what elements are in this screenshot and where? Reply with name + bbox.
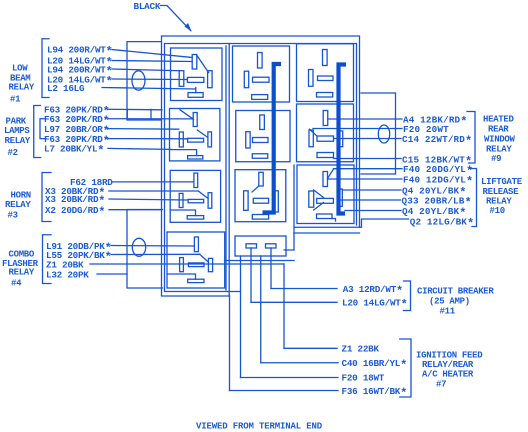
wire F36 vertical from shell xyxy=(229,296,231,391)
relay C3R2 diagonal contact xyxy=(310,129,318,136)
relay C2R2 bottom pin bar xyxy=(252,154,268,159)
wire F63 20PK/RD row1 xyxy=(108,108,162,111)
relay R1 diagonal contact xyxy=(197,55,209,72)
bus bar column 3 xyxy=(339,65,347,214)
wire F63 20PK/RD row4 xyxy=(108,138,188,140)
wire A3 junction horizontal xyxy=(225,260,295,262)
relay R4 pin 85 (left) xyxy=(180,258,184,272)
bracket group 2 inner F63 xyxy=(40,119,46,139)
wire F63 join vertical 1 xyxy=(150,109,152,118)
wire F20 vertical xyxy=(240,256,242,378)
relay C2R1 bottom pin bar xyxy=(252,95,268,100)
heated rear window extension box xyxy=(361,93,396,174)
relay C3R3 pin (center bar) xyxy=(317,198,334,203)
wire Z1 22BK to label xyxy=(284,347,337,349)
relay R1 pin 85 (left) xyxy=(179,71,184,87)
svg-text:RELAY: RELAY xyxy=(5,200,31,210)
bus bar column 2 xyxy=(263,64,347,214)
relay R1 low beam socket box xyxy=(171,48,223,101)
svg-text:X2 20DG/RD*: X2 20DG/RD* xyxy=(45,205,105,219)
relay R2 bottom step stub xyxy=(171,150,197,156)
relay R1 pin 87 (center bar) xyxy=(187,77,204,82)
relay C2R3 pin (right) xyxy=(273,191,278,212)
wire Q2 12LG/BK stub xyxy=(362,219,409,227)
svg-text:L20 14LG/WT*: L20 14LG/WT* xyxy=(342,298,408,312)
bottom connector box xyxy=(235,236,286,256)
relay C3R1 socket box xyxy=(297,44,354,102)
bracket group 4 xyxy=(43,235,52,284)
column 3 group box left edge xyxy=(293,165,295,233)
connector C100 oval xyxy=(132,71,145,90)
svg-text:#2: #2 xyxy=(8,148,18,158)
wire L55 20PK/BK xyxy=(111,253,200,255)
bottom connector pad 2 xyxy=(266,244,277,248)
wire L20 14LG/WT row4 xyxy=(112,78,187,81)
bottom connector pad 1 xyxy=(246,244,257,248)
wire X3 20BK/RD row1 xyxy=(109,190,198,192)
wire F63 20PK/RD row2 xyxy=(108,118,193,120)
relay R1 pin 30 (top) xyxy=(192,55,197,70)
main fuse box inner liner xyxy=(165,44,357,292)
relay R2 diagonal contact xyxy=(197,130,207,137)
wire L94 200R/WT row3 xyxy=(112,69,179,71)
svg-text:LAMPS: LAMPS xyxy=(4,126,30,136)
relay R2 pin 30 (top) xyxy=(193,113,197,127)
node label BLACK arrowhead xyxy=(185,23,192,32)
bracket group 3 xyxy=(42,173,51,222)
relay R2 pin 86 (right) xyxy=(208,132,212,147)
svg-text:#4: #4 xyxy=(11,279,22,289)
svg-text:IGNITION FEED: IGNITION FEED xyxy=(416,351,483,361)
relay R2 pin 87 (center bar) xyxy=(188,138,204,142)
column 2 group box left edge xyxy=(228,44,230,297)
wire L91 20DB/PK xyxy=(111,245,194,248)
relay C2R2 pin (center bar) xyxy=(253,138,269,143)
relay R3 horn socket box xyxy=(170,170,220,222)
svg-text:HEATED: HEATED xyxy=(483,115,515,125)
svg-text:REAR: REAR xyxy=(488,125,509,135)
wire C40 16BR/YL to label xyxy=(261,362,338,364)
wire X2 20DG/RD xyxy=(109,209,162,211)
relay R4 diagonal contact xyxy=(200,254,209,262)
svg-text:COMBO: COMBO xyxy=(9,250,35,260)
wire A3 pad stub xyxy=(270,248,272,289)
svg-text:Q2 12LG/BK*: Q2 12LG/BK* xyxy=(410,217,475,231)
relay R3 bottom feed and stub xyxy=(171,210,196,216)
svg-text:A3 12RD/WT*: A3 12RD/WT* xyxy=(343,284,403,298)
relay C2R3 socket box xyxy=(235,170,286,222)
connector C101 lower channel box xyxy=(127,210,163,289)
svg-text:#3: #3 xyxy=(8,211,18,221)
relay R2 pin 85 (left) xyxy=(179,132,183,147)
wire F40 12DG/YL xyxy=(328,178,403,180)
relay C3R2 heated rear window socket box xyxy=(297,104,354,162)
relay R4 combo flasher socket box xyxy=(167,232,225,288)
relay C2R3 bottom pin bar xyxy=(252,215,268,220)
connector C101 oval xyxy=(132,238,145,256)
bracket heated rear window relay xyxy=(467,112,475,164)
svg-text:BLACK: BLACK xyxy=(134,1,161,12)
svg-text:#7: #7 xyxy=(436,380,446,390)
wire Z1 vertical drop xyxy=(283,264,285,348)
svg-text:F20 18WT: F20 18WT xyxy=(342,373,385,384)
relay R3 pin 30 (top) xyxy=(194,173,198,187)
wire F20 20WT xyxy=(313,128,402,130)
svg-text:#1: #1 xyxy=(10,95,21,105)
svg-text:L7 20BK/YL*: L7 20BK/YL* xyxy=(44,144,104,158)
wire F62 18RD xyxy=(113,181,193,183)
relay C2R3 pin (left) xyxy=(244,191,249,211)
wire F40 20DG/YL xyxy=(334,168,403,170)
wire Z1 20BK horizontal xyxy=(90,263,284,265)
wire L32 20PK xyxy=(97,273,127,275)
wire L20 14LG/WT to label xyxy=(251,301,337,303)
wire X3 20BK/RD row2 xyxy=(109,199,188,200)
svg-text:(25 AMP): (25 AMP) xyxy=(429,296,470,306)
relay R4 bottom pin bar xyxy=(188,279,204,282)
wire L20 14LG/WT vertical from pad1 xyxy=(250,248,252,302)
svg-text:Z1 22BK: Z1 22BK xyxy=(342,344,380,355)
relay C2R3 pin (center bar) xyxy=(253,198,268,203)
relay C3R1 bottom pin bar xyxy=(317,93,333,98)
wire F20 18WT to label xyxy=(241,377,339,379)
relay C3R3 pin (top) xyxy=(323,172,328,187)
svg-text:F36 16WT/BK*: F36 16WT/BK* xyxy=(342,386,408,400)
relay R3 diagonal contact xyxy=(198,191,208,199)
relay C2R2 socket box xyxy=(236,111,290,162)
relay C2R1 pin (top) xyxy=(258,53,263,69)
relay C3R3 pin (left) xyxy=(309,191,314,207)
relay C3R2 bottom pin bar xyxy=(317,153,334,158)
column 3 liner drop corner xyxy=(284,233,294,250)
relay R4 bottom feed and stub xyxy=(167,274,195,279)
relay C3R3 liftgate release socket box xyxy=(297,165,354,224)
relay C3R1 pin (center bar) xyxy=(318,76,334,81)
bracket group 2 outer xyxy=(34,106,41,158)
relay R2 park lamps socket box xyxy=(170,109,220,161)
relay C3R2 pin (top) xyxy=(323,111,328,126)
extension box oval xyxy=(378,125,389,143)
wire L20 14LG/WT row2 xyxy=(112,61,192,62)
relay C2R1 pin (center bar) xyxy=(253,77,270,82)
relay C3R3 bottom pin bar xyxy=(317,214,333,219)
svg-text:#11: #11 xyxy=(440,307,456,317)
relay R3 pin 87 (center bar) xyxy=(188,199,204,202)
wire F36 16WT/BK to label xyxy=(230,390,339,392)
wire Q4 20YL/BK row1 xyxy=(342,189,401,191)
relay R4 pin 87 (center bar) xyxy=(188,263,204,267)
wire L97 20BR/OR xyxy=(108,128,179,131)
svg-text:RELAY: RELAY xyxy=(9,268,35,278)
bracket ignition feed relay xyxy=(400,339,411,397)
bracket group 1 xyxy=(42,39,49,98)
relay C2R2 pin (top) xyxy=(260,115,265,130)
relay C2R3 pin (top) xyxy=(259,172,263,186)
svg-text:#9: #9 xyxy=(491,154,501,164)
relay C3R3 K diagonal upper xyxy=(314,190,324,198)
column 3 lower liner line 2 xyxy=(294,232,360,234)
wire F63 join vertical 2 xyxy=(126,109,128,119)
svg-text:C40 16BR/YL*: C40 16BR/YL* xyxy=(342,358,408,372)
svg-text:C14 22WT/RD*: C14 22WT/RD* xyxy=(402,134,472,148)
svg-text:L2 16LG: L2 16LG xyxy=(47,83,85,94)
wire A3 12RD/WT to label xyxy=(271,288,337,290)
svg-text:A/C HEATER: A/C HEATER xyxy=(422,370,474,380)
connector C100 upper channel box xyxy=(127,42,162,120)
relay R2 bottom pin bar xyxy=(188,156,203,159)
relay C2R1 pin (left) xyxy=(244,71,248,88)
relay C3R3 pin (right) xyxy=(338,189,342,206)
relay C3R3 top diagonal contact xyxy=(328,169,334,179)
svg-text:RELAY: RELAY xyxy=(5,136,31,146)
column 1 group box right edge xyxy=(225,46,227,290)
relay R1 pin 86 (right) xyxy=(208,71,213,88)
wire C14 22WT/RD xyxy=(334,138,402,140)
relay R1 bottom pin bar xyxy=(188,93,203,98)
svg-text:LIFTGATE: LIFTGATE xyxy=(481,177,523,187)
relay C3R2 pin (right) xyxy=(338,131,343,147)
relay C3R1 pin (top) xyxy=(323,50,328,66)
relay R3 pin 86 (right) xyxy=(208,193,212,209)
svg-text:RELEASE: RELEASE xyxy=(483,187,520,197)
wire C40 vertical xyxy=(260,256,262,363)
svg-text:VIEWED FROM TERMINAL END: VIEWED FROM TERMINAL END xyxy=(196,422,323,432)
relay R3 bottom pin bar xyxy=(187,216,204,220)
wire L94 200R/WT row1 xyxy=(112,50,192,58)
svg-text:RELAY: RELAY xyxy=(486,197,512,207)
svg-text:RELAY/REAR: RELAY/REAR xyxy=(422,360,474,370)
relay R4 pin 30 (top) xyxy=(194,237,198,252)
relay C3R1 pin (left) xyxy=(309,70,314,87)
relay R2 diagonal from top edge xyxy=(180,110,194,120)
svg-text:LOW: LOW xyxy=(12,64,28,74)
svg-text:PARK: PARK xyxy=(6,117,27,127)
relay C2R3 diagonal contact xyxy=(252,186,259,192)
wire L7 20BK/YL xyxy=(108,148,171,149)
node label BLACK leader line xyxy=(161,6,191,31)
svg-text:CIRCUIT BREAKER: CIRCUIT BREAKER xyxy=(417,287,494,297)
svg-text:RELAY: RELAY xyxy=(9,83,35,93)
svg-text:RELAY: RELAY xyxy=(486,145,512,155)
column 3 lower liner line 1 xyxy=(294,226,362,228)
main fuse box outer shell xyxy=(162,36,360,296)
relay R3 pin 85 (left) xyxy=(179,193,183,207)
svg-text:HORN: HORN xyxy=(11,191,31,201)
wire Q33 20BR/LB xyxy=(338,199,401,201)
relay C3R2 pin (center bar) xyxy=(317,136,334,141)
relay C3R2 pin (left) xyxy=(309,130,313,147)
wire C15 12BK/WT xyxy=(334,158,402,160)
bracket liftgate release relay xyxy=(470,169,477,227)
wire L2 16LG row5 xyxy=(102,88,196,90)
bracket circuit breaker xyxy=(404,281,411,311)
svg-text:#10: #10 xyxy=(490,206,505,216)
relay R1 pin 87a stub xyxy=(195,88,197,93)
wire Q4 20YL/BK row2 xyxy=(345,210,401,212)
relay C2R1 socket box xyxy=(233,46,290,102)
relay C3R3 bottom step xyxy=(332,219,336,222)
relay R4 pin 86 (right) xyxy=(208,258,212,271)
svg-text:L32 20PK: L32 20PK xyxy=(46,270,89,281)
wire A4 12BK/RD xyxy=(328,118,402,120)
relay C3R3 K diagonal lower xyxy=(314,203,324,211)
relay C2R2 pin (left) xyxy=(246,132,250,148)
svg-text:WINDOW: WINDOW xyxy=(484,135,516,145)
